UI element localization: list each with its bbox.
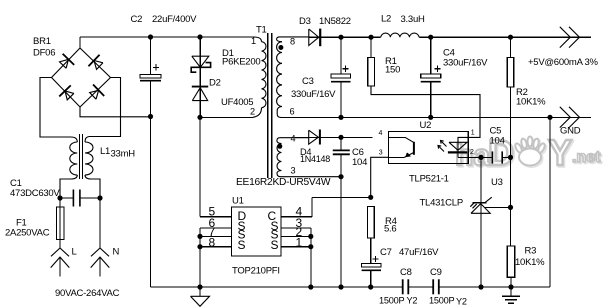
svg-text:22uF/400V: 22uF/400V bbox=[152, 14, 197, 25]
svg-text:1500P: 1500P bbox=[379, 296, 404, 306]
svg-text:D2: D2 bbox=[209, 78, 221, 89]
svg-text:3: 3 bbox=[291, 166, 296, 176]
svg-text:Y: Y bbox=[548, 132, 572, 173]
svg-text:U3: U3 bbox=[491, 177, 503, 188]
svg-text:T1: T1 bbox=[256, 25, 267, 36]
svg-text:1N4148: 1N4148 bbox=[300, 154, 330, 164]
svg-text:2: 2 bbox=[250, 107, 255, 117]
svg-text:1500P: 1500P bbox=[429, 296, 454, 306]
svg-text:104: 104 bbox=[490, 136, 505, 147]
svg-text:2A250VAC: 2A250VAC bbox=[5, 228, 50, 239]
svg-text:+5V@600mA 3%: +5V@600mA 3% bbox=[528, 57, 599, 68]
svg-text:D3: D3 bbox=[299, 16, 311, 27]
svg-text:104: 104 bbox=[352, 157, 367, 168]
svg-text:TLP521-1: TLP521-1 bbox=[409, 174, 449, 185]
svg-text:1: 1 bbox=[471, 130, 475, 137]
svg-text:S: S bbox=[271, 238, 279, 252]
svg-text:BR1: BR1 bbox=[33, 36, 51, 47]
svg-text:U2: U2 bbox=[420, 120, 432, 131]
svg-text:10K1%: 10K1% bbox=[516, 97, 546, 108]
svg-text:33mH: 33mH bbox=[111, 149, 136, 160]
svg-text:90VAC-264VAC: 90VAC-264VAC bbox=[55, 288, 120, 299]
svg-text:C7: C7 bbox=[380, 247, 392, 258]
svg-text:1: 1 bbox=[251, 36, 256, 46]
svg-text:DF06: DF06 bbox=[33, 48, 55, 59]
svg-text:L1: L1 bbox=[100, 146, 110, 157]
svg-text:C2: C2 bbox=[131, 14, 143, 25]
svg-text:1N5822: 1N5822 bbox=[319, 16, 351, 27]
svg-text:1: 1 bbox=[296, 235, 303, 249]
svg-text:3.3uH: 3.3uH bbox=[401, 14, 425, 25]
svg-text:8: 8 bbox=[209, 235, 216, 249]
svg-text:Y2: Y2 bbox=[407, 296, 418, 306]
svg-text:U1: U1 bbox=[232, 196, 244, 207]
svg-text:TOP210PFI: TOP210PFI bbox=[232, 266, 280, 277]
svg-text:Y2: Y2 bbox=[456, 297, 467, 307]
svg-text:C8: C8 bbox=[400, 267, 412, 278]
svg-text:.net: .net bbox=[572, 149, 601, 166]
svg-text:473DC630V: 473DC630V bbox=[10, 188, 60, 199]
svg-text:150: 150 bbox=[385, 65, 400, 76]
svg-text:R3: R3 bbox=[525, 246, 537, 257]
svg-text:S: S bbox=[238, 238, 246, 252]
svg-text:6: 6 bbox=[290, 107, 295, 117]
svg-text:2: 2 bbox=[470, 149, 474, 156]
svg-text:L: L bbox=[72, 247, 77, 258]
svg-text:4: 4 bbox=[291, 134, 296, 144]
svg-text:3: 3 bbox=[379, 150, 383, 157]
svg-text:N: N bbox=[113, 247, 120, 258]
svg-text:L2: L2 bbox=[381, 14, 391, 25]
svg-text:4: 4 bbox=[379, 130, 383, 137]
svg-text:8: 8 bbox=[290, 37, 295, 47]
svg-text:UF4005: UF4005 bbox=[221, 97, 253, 108]
svg-text:P6KE200: P6KE200 bbox=[222, 57, 260, 68]
svg-text:330uF/16V: 330uF/16V bbox=[443, 58, 488, 69]
svg-text:5.6: 5.6 bbox=[384, 224, 396, 235]
svg-text:EE16R2KD-UR5V4W: EE16R2KD-UR5V4W bbox=[236, 177, 331, 188]
svg-text:330uF/16V: 330uF/16V bbox=[291, 89, 336, 100]
svg-text:C3: C3 bbox=[302, 76, 314, 87]
svg-text:C9: C9 bbox=[430, 267, 442, 278]
svg-text:47uF/16V: 47uF/16V bbox=[399, 247, 439, 258]
svg-text:10K1%: 10K1% bbox=[515, 257, 545, 268]
svg-text:GND: GND bbox=[560, 126, 581, 137]
svg-text:TL431CLP: TL431CLP bbox=[420, 198, 463, 209]
